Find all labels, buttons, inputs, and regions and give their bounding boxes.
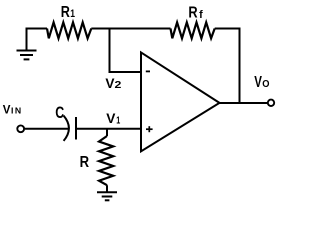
svg-text:V: V <box>254 73 262 90</box>
svg-text:f: f <box>199 9 203 21</box>
svg-text:IN: IN <box>11 106 23 116</box>
svg-text:V: V <box>3 102 11 116</box>
svg-text:R: R <box>80 154 90 171</box>
svg-text:2: 2 <box>115 80 122 91</box>
svg-text:1: 1 <box>70 8 75 20</box>
svg-text:V: V <box>106 110 116 126</box>
svg-text:C: C <box>55 105 64 123</box>
svg-text:1: 1 <box>116 114 120 126</box>
svg-text:R: R <box>188 4 197 21</box>
svg-text:R: R <box>61 4 70 22</box>
svg-text:O: O <box>262 79 270 90</box>
